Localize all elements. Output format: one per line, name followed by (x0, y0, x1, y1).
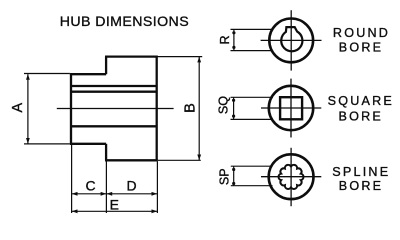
svg-text:A: A (10, 103, 26, 113)
ext line B top (157, 56, 203, 58)
centerline (57, 108, 174, 110)
ext below step (105, 161, 107, 213)
dim line B (198, 57, 200, 160)
flange right face (156, 56, 158, 161)
square bore square (280, 97, 302, 119)
arrow E right (152, 209, 158, 213)
bottom extension lines (72, 145, 158, 213)
boss bottom edge (70, 143, 106, 145)
square bore outer circle (269, 86, 313, 130)
round bore crosshair (261, 10, 322, 70)
svg-text:SPLINE: SPLINE (332, 165, 390, 179)
arrow C left (72, 192, 78, 196)
dimension SQ (231, 97, 274, 119)
step vertical bottom (105, 144, 107, 161)
svg-text:E: E (110, 197, 119, 213)
svg-text:SP: SP (217, 168, 231, 185)
svg-text:B: B (183, 103, 199, 113)
arrow dot SQ bottom (232, 115, 235, 118)
arrow C right (bowtie left half) (101, 192, 107, 196)
arrow B bottom (197, 155, 201, 161)
svg-text:C: C (85, 177, 95, 193)
ext line B bottom (158, 159, 201, 161)
arrow dot SP top (232, 168, 235, 171)
arrow B top (197, 57, 201, 63)
svg-text:SQUARE: SQUARE (328, 94, 394, 108)
round bore outer circle (269, 19, 313, 63)
bore top line (71, 91, 157, 93)
svg-text:D: D (126, 177, 136, 193)
ext below flange right face (156, 161, 158, 213)
dim line C and D (72, 193, 158, 195)
svg-text:R: R (218, 35, 232, 44)
dimension SP (231, 166, 273, 186)
hub side view outline (70, 56, 158, 161)
boss left face (70, 74, 72, 144)
arrow D left (bowtie right half) (107, 192, 113, 196)
spline bore crosshair (261, 148, 321, 206)
arrow E left (72, 209, 78, 213)
dimension A (24, 74, 70, 144)
dim line E (72, 210, 158, 212)
svg-text:BORE: BORE (339, 40, 384, 54)
dimension B (157, 57, 203, 161)
flange top edge (105, 55, 157, 57)
dim line A (27, 74, 29, 143)
square bore crosshair (261, 79, 321, 138)
arrow dot SP bottom (232, 182, 235, 185)
ext line A bottom (24, 143, 70, 145)
round bore inner circle with keyway (281, 27, 302, 51)
ext below boss left face (71, 145, 73, 213)
arrow dot R bottom (232, 46, 235, 49)
arrow D right (152, 192, 158, 196)
svg-text:ROUND: ROUND (333, 26, 390, 40)
svg-text:BORE: BORE (339, 179, 384, 193)
keyway line (71, 85, 157, 87)
spline bore gear (279, 165, 304, 189)
step vertical top (105, 57, 107, 75)
spline bore outer circle (269, 154, 314, 199)
arrow A bottom (26, 138, 30, 144)
flange bottom edge (105, 159, 158, 161)
arrow dot SQ top (232, 99, 235, 102)
ext line A top (24, 73, 70, 75)
boss top edge (70, 73, 106, 75)
svg-text:HUB DIMENSIONS: HUB DIMENSIONS (60, 14, 189, 30)
arrow dot R top (232, 31, 235, 34)
arrow A top (26, 74, 30, 80)
svg-text:SQ: SQ (216, 96, 230, 114)
svg-text:BORE: BORE (339, 110, 384, 124)
dimension R (231, 29, 274, 50)
bore bottom line (71, 125, 157, 127)
